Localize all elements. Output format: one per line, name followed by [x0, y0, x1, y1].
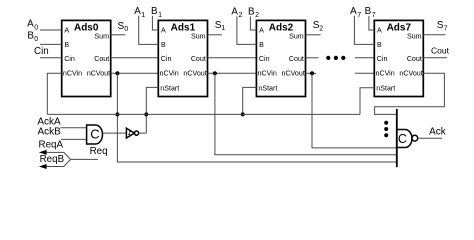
- svg-text:Cout: Cout: [431, 46, 450, 56]
- wire A0 to Ads0.A: [40, 29, 62, 31]
- svg-text:7: 7: [372, 12, 376, 19]
- node bus junction at x242.7: [241, 112, 245, 116]
- svg-text:Cin: Cin: [161, 55, 172, 63]
- svg-text:7: 7: [357, 12, 361, 19]
- label S7: [437, 20, 448, 32]
- node Ads0.nCVout junction: [115, 71, 119, 75]
- arrow ReqA: [39, 150, 47, 155]
- svg-text:nCVin: nCVin: [160, 69, 179, 77]
- svg-text:1: 1: [158, 12, 162, 19]
- svg-text:Cin: Cin: [377, 55, 388, 63]
- svg-text:B: B: [377, 41, 382, 49]
- svg-text:nCVin: nCVin: [258, 69, 277, 77]
- svg-text:0: 0: [34, 36, 38, 43]
- inverter U1 (schmitt): [126, 128, 138, 138]
- wire nStart bus: [47, 113, 360, 115]
- wire Ads7.nCVin stub: [355, 72, 375, 74]
- node Ads1.nCVout junction: [213, 71, 217, 75]
- wire AckA to C1: [61, 127, 87, 129]
- wire Ads1.nCVout to Ads2.nCVin: [208, 72, 257, 74]
- label S0: [118, 21, 129, 33]
- svg-text:nCVout: nCVout: [183, 69, 206, 77]
- wire Ads2.nCVout stub: [306, 72, 317, 74]
- wire Ads0.nCVout down to C2 bus: [117, 73, 396, 162]
- wire Ads1.Sum stub: [208, 34, 223, 36]
- C-element C2: [397, 130, 418, 148]
- wire Ads7.Cin stub: [355, 57, 375, 59]
- svg-text:Ack: Ack: [429, 127, 447, 138]
- svg-text:A: A: [350, 6, 357, 17]
- label B1: [151, 6, 162, 19]
- svg-text:B: B: [161, 41, 166, 49]
- svg-text:2: 2: [319, 25, 323, 32]
- svg-text:Sum: Sum: [94, 32, 109, 40]
- svg-text:Sum: Sum: [289, 32, 304, 40]
- svg-text:Cin: Cin: [64, 55, 75, 63]
- label A7: [350, 6, 361, 19]
- block Ads7: [374, 20, 423, 96]
- svg-text:B: B: [64, 41, 69, 49]
- svg-text:C: C: [90, 126, 99, 141]
- wire Ads0.nCVin from nStart bus: [47, 73, 61, 114]
- svg-text:C: C: [398, 132, 407, 146]
- wire A7 to Ads7.B: [354, 16, 374, 45]
- svg-text:nCVout: nCVout: [282, 69, 305, 77]
- svg-text:Cout: Cout: [407, 55, 422, 63]
- svg-text:B: B: [259, 41, 264, 49]
- node bus junction at x146.3: [144, 112, 148, 116]
- svg-text:Sum: Sum: [191, 32, 206, 40]
- wire Req stub: [71, 158, 98, 160]
- svg-text:Cin: Cin: [34, 46, 49, 57]
- ellipsis carry chain dots: [326, 56, 345, 60]
- wire Ads0.Sum stub: [111, 34, 126, 36]
- wire Ads7.Cout stub: [423, 57, 447, 59]
- label A1: [134, 6, 145, 19]
- wire Ack output: [418, 137, 442, 139]
- wire Ads2.Sum stub: [306, 34, 321, 36]
- svg-text:Cout: Cout: [191, 55, 206, 63]
- wire Ads7.Sum stub: [423, 34, 445, 36]
- svg-text:A: A: [259, 26, 264, 34]
- label A0: [27, 18, 38, 31]
- wire B2 to Ads2.A: [250, 16, 256, 30]
- svg-text:2: 2: [239, 12, 243, 19]
- label S2: [313, 20, 324, 32]
- svg-text:AckB: AckB: [38, 127, 62, 138]
- svg-text:B: B: [365, 6, 372, 17]
- svg-text:Cout: Cout: [289, 55, 304, 63]
- svg-text:nStart: nStart: [376, 85, 395, 93]
- svg-text:A: A: [161, 26, 166, 34]
- svg-text:2: 2: [255, 12, 259, 19]
- svg-text:0: 0: [124, 26, 128, 33]
- wire Ads1.Cout to Ads2.Cin: [208, 57, 257, 59]
- svg-text:nCVout: nCVout: [399, 69, 422, 77]
- arrow ReqB: [39, 164, 47, 169]
- node bus junction at x117.4: [115, 112, 119, 116]
- wire Ads7.nCVout loop to C2 bus: [375, 73, 445, 114]
- svg-text:A: A: [231, 6, 238, 17]
- svg-text:A: A: [64, 26, 69, 34]
- svg-text:ReqA: ReqA: [39, 139, 64, 150]
- wire Ads1.nStart from inverter: [146, 87, 158, 133]
- svg-text:Req: Req: [90, 146, 108, 157]
- svg-text:A: A: [134, 6, 141, 17]
- ellipsis completion dots: [384, 121, 388, 137]
- svg-text:nCVout: nCVout: [87, 69, 110, 77]
- label S1: [215, 20, 226, 32]
- wire A2 to Ads2.B: [237, 16, 257, 44]
- wire C2 input bus: [396, 109, 398, 167]
- svg-text:1: 1: [221, 25, 225, 32]
- wire ReqB with arrow: [46, 159, 71, 166]
- wire Cin to Ads0.Cin: [40, 57, 62, 59]
- node Ads2.nCVout junction: [310, 71, 314, 75]
- svg-text:7: 7: [444, 25, 448, 32]
- svg-text:0: 0: [34, 24, 38, 31]
- svg-text:B: B: [248, 6, 255, 17]
- wire A1 to Ads1.B: [139, 16, 159, 45]
- wire inverter output up to nStart net: [139, 132, 147, 134]
- wire Ads2.Cout stub: [306, 57, 319, 59]
- svg-text:nStart: nStart: [258, 85, 277, 93]
- svg-text:Sum: Sum: [407, 32, 422, 40]
- svg-text:Cout: Cout: [94, 55, 109, 63]
- svg-text:A: A: [27, 18, 34, 29]
- wire B7 to Ads7.A: [369, 16, 374, 30]
- label A2: [231, 6, 242, 19]
- svg-text:A: A: [377, 26, 382, 34]
- label B2: [248, 6, 259, 19]
- wire ReqA with arrow: [46, 152, 71, 159]
- svg-text:1: 1: [141, 12, 145, 19]
- wire Ads2.nCVout down to C2 bus: [312, 73, 397, 148]
- wire Ads7.nStart from bus end: [360, 88, 374, 115]
- wire Ads1.nCVout down to C2 bus: [215, 73, 397, 155]
- svg-text:nStart: nStart: [160, 85, 179, 93]
- label B7: [365, 6, 376, 19]
- wire Ads2.nStart from bus: [243, 87, 257, 114]
- svg-text:ReqB: ReqB: [40, 154, 65, 165]
- wire B1 to Ads1.A: [152, 16, 158, 30]
- wire Ads0.Cout to Ads1.Cin: [111, 57, 159, 59]
- label B0: [27, 30, 38, 43]
- svg-text:nCVin: nCVin: [63, 69, 82, 77]
- C-element C1: [87, 125, 103, 144]
- svg-text:nCVin: nCVin: [376, 69, 395, 77]
- block Ads0: [62, 20, 111, 96]
- wire B0 to Ads0.B: [40, 43, 62, 45]
- block Ads1: [158, 20, 207, 96]
- wire Ads0.nCVout to Ads1.nCVin: [111, 72, 159, 74]
- svg-text:B: B: [151, 6, 158, 17]
- wire AckB to C1: [61, 138, 87, 140]
- svg-text:Cin: Cin: [259, 55, 270, 63]
- block Ads2: [256, 20, 305, 96]
- wire C1 output to inverter: [103, 132, 127, 134]
